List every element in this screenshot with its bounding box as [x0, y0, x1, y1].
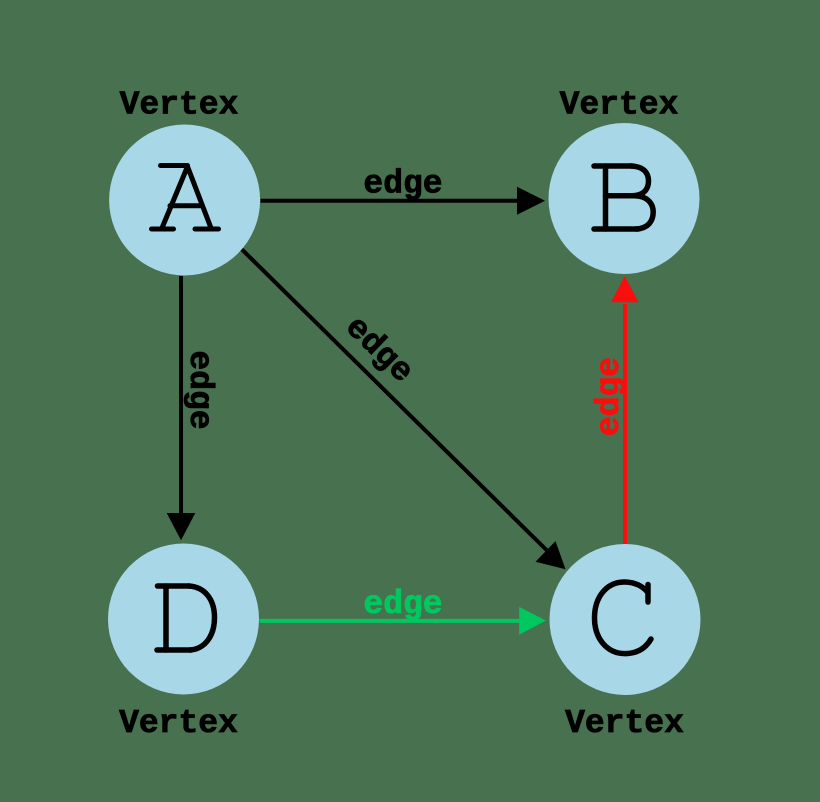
node D circle [108, 544, 259, 695]
svg-text:edge: edge [591, 357, 628, 436]
svg-text:Vertex: Vertex [560, 87, 679, 124]
node A circle [109, 125, 260, 276]
svg-text:edge: edge [363, 586, 442, 623]
svg-text:Vertex: Vertex [120, 87, 239, 124]
svg-text:edge: edge [181, 350, 218, 429]
letter D (drawn Courier-style) [157, 586, 215, 650]
letter C (drawn Courier-style) [595, 582, 652, 654]
svg-text:edge: edge [363, 166, 442, 203]
wire: edge A to B (black arrow) [261, 187, 546, 215]
node C circle [550, 544, 701, 695]
wire: edge D to C (green arrow) [260, 607, 547, 635]
svg-text:Vertex: Vertex [565, 705, 684, 742]
letter B (drawn Courier-style) [594, 166, 653, 229]
letter A (drawn Courier-style) [152, 166, 219, 230]
wire: edge A to D (black arrow) [167, 276, 196, 540]
wire: edge C to B (red arrow) [611, 276, 639, 544]
wire: edge A to C (black diagonal arrow) [241, 249, 566, 570]
node B circle [549, 123, 700, 274]
svg-text:Vertex: Vertex [119, 705, 238, 742]
